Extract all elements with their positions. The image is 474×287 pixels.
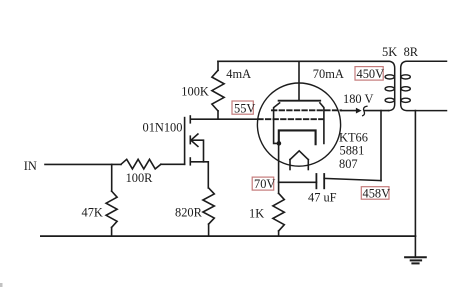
svg-text:807: 807 — [339, 157, 358, 171]
arrow ultralinear tap — [356, 108, 362, 114]
transformer T1 secondary loop 1 — [401, 75, 410, 79]
resistor 100R (horizontal zigzag) — [121, 159, 161, 169]
tube screen grid (dashed) — [272, 109, 341, 111]
transformer T1 secondary winding 8R spine — [401, 61, 447, 110]
wire ground rail bottom — [41, 235, 416, 237]
wire 100K bottom — [217, 111, 219, 119]
tube right beam plate — [320, 103, 324, 143]
wire 47K bottom lead — [111, 227, 113, 236]
wire top rail B+ — [218, 60, 389, 62]
svg-text:IN: IN — [24, 159, 37, 173]
tube left beam plate — [274, 103, 280, 143]
svg-text:450V: 450V — [357, 67, 385, 81]
transistor Q1 channel segments — [189, 116, 191, 123]
svg-text:70mA: 70mA — [313, 67, 344, 81]
wire capacitor right to 458V corner — [324, 178, 381, 180]
capacitor C1 47uF plates — [315, 174, 317, 188]
svg-text:47K: 47K — [82, 205, 103, 219]
wire 70V node to capacitor — [279, 181, 317, 183]
tube plate lead — [298, 61, 300, 100]
wire 1K bottom lead — [278, 231, 280, 236]
svg-text:4mA: 4mA — [226, 67, 251, 81]
transistor Q1 source wire — [190, 162, 208, 188]
resistor 100K top lead and wire to top rail — [217, 61, 219, 70]
svg-text:820R: 820R — [175, 205, 203, 219]
svg-text:100R: 100R — [126, 171, 154, 185]
tube cathode — [279, 130, 316, 144]
wire cathode lead down to 70V node — [278, 143, 280, 193]
svg-text:55V: 55V — [234, 101, 255, 115]
junction dot cathode — [277, 141, 282, 146]
wire drain / node 55V line to tube grid — [190, 118, 259, 120]
wire input from IN — [45, 163, 121, 165]
tube V1 envelope circle — [257, 83, 340, 166]
wire 47K top lead — [111, 164, 113, 191]
wire 820R bottom lead — [208, 224, 210, 236]
resistor 47K (vertical zigzag) — [106, 191, 117, 227]
svg-text:5K: 5K — [382, 45, 397, 59]
svg-text:8R: 8R — [404, 45, 419, 59]
label 55V boxed — [232, 101, 253, 114]
resistor 1K (vertical zigzag) — [273, 193, 284, 231]
transformer T1 primary winding 5K spine — [389, 61, 395, 110]
resistor 820R (vertical zigzag) — [203, 188, 214, 224]
wire secondary to ground — [414, 111, 416, 258]
svg-text:70V: 70V — [254, 177, 275, 191]
squiggle tap symbol — [362, 106, 368, 116]
wire 458V vertical riser — [380, 111, 382, 181]
tube heater legs — [289, 160, 291, 170]
transformer T1 primary loop 3 — [385, 98, 394, 102]
resistor 100K (vertical zigzag) — [212, 70, 224, 111]
transistor Q1 01N100 gate bar — [184, 118, 186, 165]
transformer T1 primary loop 1 — [385, 75, 394, 79]
transformer T1 secondary loop 2 — [401, 87, 410, 91]
svg-text:01N100: 01N100 — [143, 121, 183, 135]
transistor Q1 body arrowhead — [191, 134, 198, 146]
corner artifact — [0, 283, 3, 287]
transformer T1 secondary loop 3 — [401, 98, 410, 102]
label 70V boxed — [252, 177, 274, 190]
svg-text:1K: 1K — [249, 207, 264, 221]
svg-text:47 uF: 47 uF — [308, 191, 337, 205]
tube heater caret — [290, 151, 308, 160]
transformer T1 primary loop 2 — [385, 87, 394, 91]
svg-text:5881: 5881 — [340, 144, 365, 158]
tube control grid (dashed) — [258, 118, 326, 120]
transistor Q1 body arrow line — [191, 140, 204, 162]
svg-text:100K: 100K — [181, 85, 209, 99]
svg-text:458V: 458V — [363, 187, 391, 201]
svg-text:180 V: 180 V — [343, 92, 373, 106]
label 450V boxed — [355, 67, 383, 81]
ground symbol — [405, 256, 426, 258]
wire 100R to gate — [161, 163, 185, 165]
wire screen to ultralinear tap (180V line) — [341, 110, 356, 112]
tube anode plate bar — [279, 100, 321, 102]
label 458V boxed — [361, 187, 389, 200]
svg-text:KT66: KT66 — [339, 131, 368, 145]
